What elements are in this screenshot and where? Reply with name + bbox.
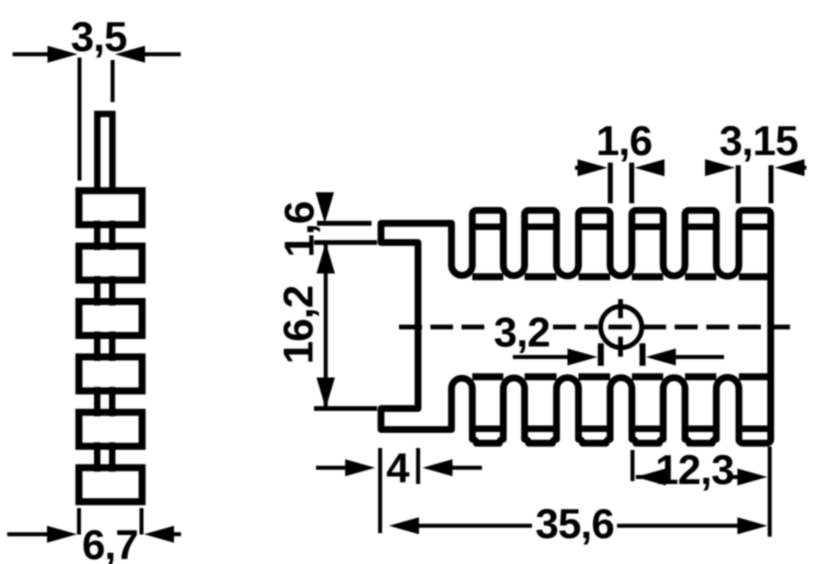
svg-text:35,6: 35,6 [535,500,614,547]
dimension 6,7 (stack width, bottom left) [7,508,181,564]
svg-text:3,15: 3,15 [719,117,798,164]
svg-text:1,6: 1,6 [596,117,652,164]
mounting hole with crosshair [601,299,642,357]
dimension 12,3 (hole to right edge) [633,446,768,493]
dimension 1,6 (flange thickness, left) [276,192,378,273]
heatsink side view: mounting tab [97,114,112,190]
svg-text:6,7: 6,7 [82,521,138,564]
dimension 1,6 (fin gap, top) [575,117,665,203]
svg-text:4: 4 [386,445,410,492]
svg-text:12,3: 12,3 [655,446,734,493]
dimension 3,5 (tab width, top left) [13,13,181,181]
svg-text:3,5: 3,5 [71,13,127,60]
svg-text:16,2: 16,2 [275,286,322,365]
dimension 3,2 (hole diameter) [494,309,724,366]
dimension 16,2 (channel height, left) [275,243,378,409]
dimension 4 (channel depth, bottom left) [316,445,482,533]
dashed centerline [399,325,790,330]
fin inner bars and cavity closures [472,227,770,429]
heatsink side view: fin plates stack [79,191,142,502]
heatsink profile outline (top view) [381,210,771,443]
svg-text:3,2: 3,2 [494,309,550,356]
dimension 35,6 (overall length, bottom) [389,447,770,548]
dimension 3,15 (fin pitch, top right) [705,117,806,203]
svg-text:1,6: 1,6 [276,202,323,258]
